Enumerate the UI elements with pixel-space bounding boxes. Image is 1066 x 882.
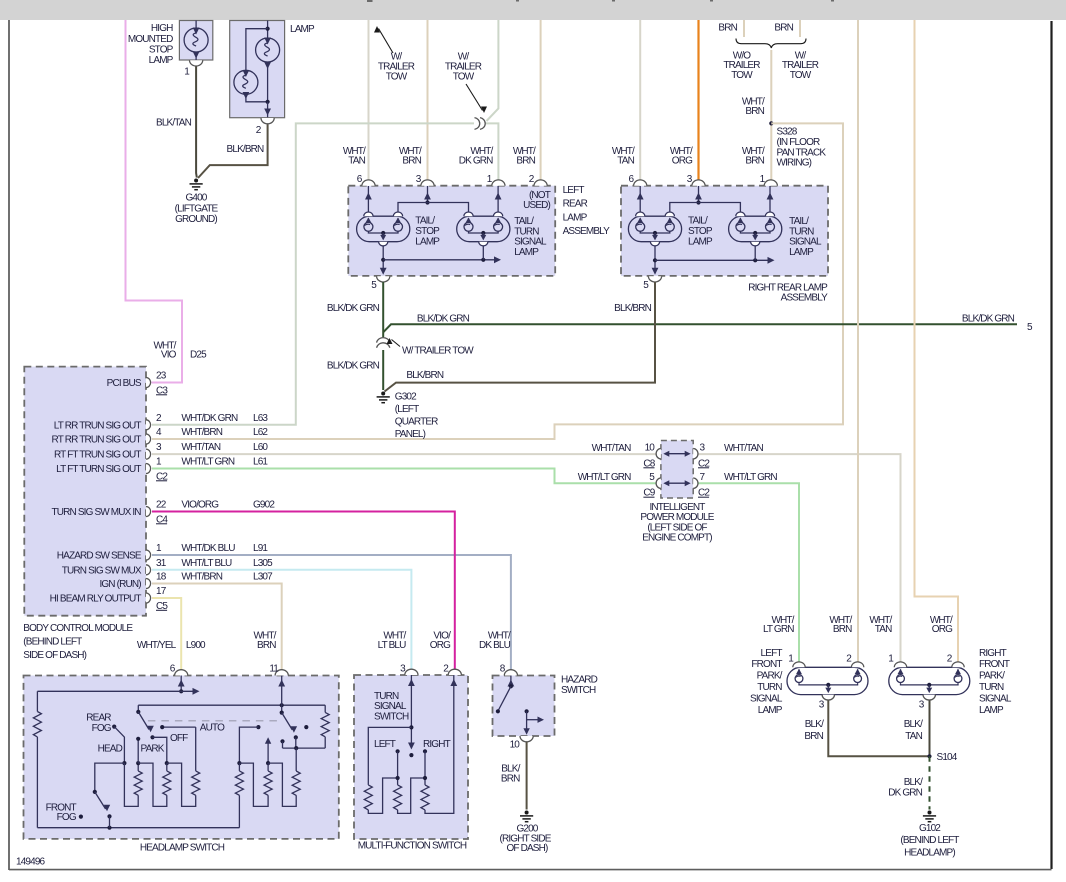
svg-text:C2: C2 xyxy=(156,471,168,482)
svg-text:HI BEAM RLY OUTPUT: HI BEAM RLY OUTPUT xyxy=(50,594,142,605)
svg-text:STOP: STOP xyxy=(149,44,174,55)
svg-text:PCI BUS: PCI BUS xyxy=(107,378,142,389)
svg-text:L305: L305 xyxy=(253,558,273,569)
label HAZARD SWITCH xyxy=(561,675,598,696)
svg-text:C2: C2 xyxy=(698,488,710,499)
svg-text:LAMP: LAMP xyxy=(149,55,174,66)
svg-text:G302: G302 xyxy=(395,392,417,403)
wire WHT/BRN L307 from BCM pin 18 to headlamp switch pin 11 xyxy=(152,584,282,676)
svg-text:SWITCH: SWITCH xyxy=(374,711,409,722)
svg-text:WHT/BRN: WHT/BRN xyxy=(181,427,222,438)
label WHT/TAN xyxy=(343,146,366,167)
svg-text:FRONT: FRONT xyxy=(979,659,1010,670)
wire BLK/BRN from hazard pin 10 to G200 xyxy=(526,742,528,810)
svg-text:23: 23 xyxy=(156,371,167,382)
headlamp switch box xyxy=(24,676,339,839)
pin 2 connector multi-function switch xyxy=(448,669,461,675)
svg-text:BLK/BRN: BLK/BRN xyxy=(227,144,264,155)
svg-text:LAMP: LAMP xyxy=(979,705,1004,716)
svg-text:G102: G102 xyxy=(919,823,941,834)
pin 3 feed wiring inside right rear lamp box xyxy=(670,186,741,212)
svg-text:WHT/LT BLU: WHT/LT BLU xyxy=(181,558,232,569)
svg-text:(LIFTGATE: (LIFTGATE xyxy=(175,203,219,214)
label WHT/BRN above left front lamp xyxy=(829,615,852,635)
license lamp box xyxy=(230,21,285,118)
svg-text:WHT/TAN: WHT/TAN xyxy=(724,443,763,454)
lamp A (upper) in license lamp box xyxy=(256,38,280,102)
svg-text:C5: C5 xyxy=(156,601,168,612)
svg-text:TAN: TAN xyxy=(905,731,922,742)
svg-text:BRN: BRN xyxy=(257,640,276,651)
BCM pin 1 HAZARD SW SENSE xyxy=(57,543,162,562)
svg-text:TAN: TAN xyxy=(875,624,892,635)
BCM pin 23 PCI BUS xyxy=(107,371,169,397)
wire WHT/LT BLU L305 from BCM pin 31 to multi-function switch pin 3 xyxy=(152,570,411,675)
wire BLK/BRN from license lamp pin 2 to G400 xyxy=(198,125,268,179)
hazard switch internal circuit xyxy=(496,676,544,735)
svg-text:S104: S104 xyxy=(937,752,958,763)
svg-text:WHT/YEL: WHT/YEL xyxy=(137,640,177,651)
svg-text:OFF: OFF xyxy=(170,733,188,744)
pin 10 connector hazard switch xyxy=(520,736,533,742)
clipped title text specks in gray bar xyxy=(367,0,834,2)
pin 8 connector hazard switch xyxy=(504,670,517,676)
label WHT/DK BLU L91 xyxy=(181,543,268,554)
labels WHT/LT GRN at IPM xyxy=(578,472,778,483)
svg-text:DK BLU: DK BLU xyxy=(479,640,511,651)
svg-text:VIO/ORG: VIO/ORG xyxy=(181,500,219,511)
svg-text:MULTI-FUNCTION SWITCH: MULTI-FUNCTION SWITCH xyxy=(358,841,467,852)
ground bus inside left rear lamp box xyxy=(380,246,501,275)
junction node in license lamp box xyxy=(266,100,270,104)
wire WHT/BRN from top to left front lamp pin 2 xyxy=(857,20,859,663)
svg-text:WHT/LT GRN: WHT/LT GRN xyxy=(181,457,234,468)
svg-text:BLK/DK GRN: BLK/DK GRN xyxy=(417,314,470,325)
svg-text:FOG: FOG xyxy=(92,723,112,734)
label WHT/YEL L900 xyxy=(137,640,206,651)
label WHT/TAN above right front lamp xyxy=(869,615,892,635)
svg-text:L62: L62 xyxy=(253,427,268,438)
svg-text:BLK/DK GRN: BLK/DK GRN xyxy=(327,360,380,371)
svg-text:LEFT: LEFT xyxy=(563,185,585,196)
svg-text:TOW: TOW xyxy=(790,70,812,81)
wire WHT/DK GRN L63 from BCM pin 2 to inline connector and left rear lamp pin 1 xyxy=(152,123,474,424)
svg-text:TURN SIG SW MUX: TURN SIG SW MUX xyxy=(62,565,142,576)
svg-text:SWITCH: SWITCH xyxy=(561,685,596,696)
svg-text:TAN: TAN xyxy=(617,156,634,167)
svg-text:TURN: TURN xyxy=(979,682,1004,693)
labels WHT/TAN at IPM xyxy=(592,443,764,454)
svg-text:10: 10 xyxy=(510,740,521,751)
svg-text:RIGHT: RIGHT xyxy=(423,739,451,750)
label VIO/ORG G902 xyxy=(181,500,275,511)
svg-text:LAMP: LAMP xyxy=(415,236,440,247)
tail/stop lamp (right rear) xyxy=(628,186,681,246)
svg-text:IGN (RUN): IGN (RUN) xyxy=(99,579,141,590)
svg-text:BLK/DK GRN: BLK/DK GRN xyxy=(327,303,380,314)
svg-text:TOW: TOW xyxy=(731,70,753,81)
BCM pin 4 RT RR TRUN SIG OUT xyxy=(52,427,162,446)
svg-text:HEADLAMP): HEADLAMP) xyxy=(904,847,955,858)
svg-text:G902: G902 xyxy=(253,500,275,511)
ground G102 xyxy=(928,811,932,815)
wire BLK/BRN from left front lamp pin 3 to S104 xyxy=(828,701,929,757)
turn signal switch internal circuit xyxy=(364,675,457,813)
BCM pin 1 LT FT TURN SIG OUT xyxy=(56,457,168,483)
wire WHT/DK BLU L91 from BCM pin 1 to hazard switch pin 8 xyxy=(152,555,511,675)
tail/turn signal lamp (right rear) xyxy=(729,186,782,246)
svg-text:BRN: BRN xyxy=(718,23,737,34)
wire WHT/BRN from brace to S328 and right rear lamp pin 1 xyxy=(770,50,772,182)
IPM pin 5 C9 connector xyxy=(656,478,661,488)
high mounted stop lamp box xyxy=(179,21,212,61)
svg-text:USED): USED) xyxy=(523,200,550,211)
BCM pin 31 TURN SIG SW MUX xyxy=(62,558,167,577)
label RIGHT FRONT PARK/TURN SIGNAL LAMP xyxy=(979,648,1012,716)
svg-text:L900: L900 xyxy=(186,640,206,651)
svg-text:SIGNAL: SIGNAL xyxy=(979,693,1012,704)
svg-text:LT RR TRUN SIG OUT: LT RR TRUN SIG OUT xyxy=(54,420,142,431)
svg-text:L63: L63 xyxy=(253,413,268,424)
wire WHT/BRN to left rear lamp pin 3 xyxy=(427,20,429,182)
label WHT/VIO D25 xyxy=(153,341,207,361)
hazard switch box xyxy=(493,676,555,737)
svg-text:AUTO: AUTO xyxy=(200,723,225,734)
license lamp internal parallel wiring xyxy=(246,21,270,71)
ground G400 xyxy=(194,179,198,183)
svg-text:PARK/: PARK/ xyxy=(757,671,783,682)
pin 1 connector of high mounted stop lamp xyxy=(190,60,203,66)
svg-text:QUARTER: QUARTER xyxy=(395,417,438,428)
svg-text:C8: C8 xyxy=(643,458,655,469)
svg-text:BLK/DK GRN: BLK/DK GRN xyxy=(962,314,1015,325)
label RIGHT REAR LAMP ASSEMBLY xyxy=(748,282,828,303)
label WHT/LT GRN above left front lamp xyxy=(763,615,795,635)
svg-text:11: 11 xyxy=(269,664,279,675)
top gray title bar xyxy=(0,0,1066,20)
svg-text:BRN: BRN xyxy=(833,624,852,635)
svg-text:LT FT TURN SIG OUT: LT FT TURN SIG OUT xyxy=(56,464,141,475)
svg-text:BODY CONTROL MODULE: BODY CONTROL MODULE xyxy=(23,623,133,634)
label WHT/BRN L62 xyxy=(181,427,268,438)
svg-text:BRN: BRN xyxy=(402,156,421,167)
svg-text:LAMP: LAMP xyxy=(758,705,783,716)
wire WHT/YEL L900 from BCM pin 17 to headlamp switch pin 6 xyxy=(152,598,181,675)
svg-text:ORG: ORG xyxy=(430,640,451,651)
svg-text:RIGHT: RIGHT xyxy=(979,648,1007,659)
splice S328 xyxy=(769,121,773,125)
wire BLK/DK GRN branch to right edge (off-page 5) xyxy=(383,324,1017,332)
inline connector on BLK/DK GRN (trailer tow) xyxy=(379,339,387,347)
label VIO/ORG xyxy=(430,630,451,651)
label INTELLIGENT POWER MODULE xyxy=(640,502,714,544)
svg-text:C2: C2 xyxy=(698,458,710,469)
svg-text:TURN SIG SW MUX IN: TURN SIG SW MUX IN xyxy=(52,507,142,518)
body control module box xyxy=(24,367,146,616)
label WHT/BRN xyxy=(513,146,536,167)
ground bus inside right rear lamp box xyxy=(652,246,775,275)
svg-text:(BENIND LEFT: (BENIND LEFT xyxy=(900,835,959,846)
svg-text:LEFT: LEFT xyxy=(761,648,783,659)
wire BLK/DK GRN from left rear lamp pin 5 to G302 xyxy=(382,282,384,337)
label WHT/LT BLU L305 xyxy=(181,558,273,569)
IPM pin 10 C8 connector xyxy=(656,449,661,459)
left page border xyxy=(8,20,10,870)
pin 6 connector left rear lamp xyxy=(362,180,375,186)
svg-text:HIGH: HIGH xyxy=(151,23,173,34)
wire WHT/ORG (orange) to right rear lamp pin 3 xyxy=(697,20,699,182)
label WHT/BRN xyxy=(399,146,422,167)
svg-text:MOUNTED: MOUNTED xyxy=(128,34,173,45)
IPM internal bus arrows xyxy=(663,451,690,487)
note W/ TRAILER TOW with arrow at G302 connector xyxy=(387,338,475,357)
wire BLK/DK GRN (dashed) from S104 to G102 xyxy=(929,756,931,809)
svg-text:31: 31 xyxy=(156,558,167,569)
svg-text:HEAD: HEAD xyxy=(98,744,123,755)
right front park/turn signal lamp xyxy=(889,662,970,700)
svg-text:D25: D25 xyxy=(190,350,207,361)
BCM pin 18 IGN (RUN) xyxy=(99,572,166,591)
svg-text:DK GRN: DK GRN xyxy=(459,156,493,167)
BCM pin 3 RT FT TRUN SIG OUT xyxy=(54,442,162,461)
tail/stop lamp (left rear) xyxy=(357,186,410,246)
wire WHT/BRN L62 from S328 to BCM pin 4 xyxy=(152,123,843,439)
BCM pin 17 HI BEAM RLY OUTPUT xyxy=(50,586,169,612)
svg-text:L61: L61 xyxy=(253,457,268,468)
svg-text:L60: L60 xyxy=(253,442,268,453)
svg-text:TAN: TAN xyxy=(348,156,365,167)
svg-text:LT BLU: LT BLU xyxy=(378,640,407,651)
wire BLK/BRN from right rear lamp pin 5 to G302 xyxy=(385,282,656,392)
wire WHT/LT GRN L61 from BCM pin 1 through IPM to left front lamp pin 1 xyxy=(152,469,658,484)
svg-text:GROUND): GROUND) xyxy=(175,214,217,225)
svg-text:WIRING): WIRING) xyxy=(777,158,812,169)
inline connector (trailer tow splice) xyxy=(475,118,480,130)
svg-text:WHT/DK GRN: WHT/DK GRN xyxy=(181,413,238,424)
label WHT/DK GRN L63 xyxy=(181,413,268,424)
pin 2 connector left rear lamp xyxy=(534,180,547,186)
note W/ TRAILER TOW with arrow (to inline connector) xyxy=(445,52,487,114)
svg-text:(BEHIND LEFT: (BEHIND LEFT xyxy=(23,637,82,648)
svg-text:BLK/TAN: BLK/TAN xyxy=(156,118,192,129)
label WHT/LT BLU xyxy=(378,630,407,651)
label HIGH MOUNTED STOP LAMP xyxy=(128,23,174,66)
svg-text:SIDE OF DASH): SIDE OF DASH) xyxy=(23,650,86,661)
svg-text:L91: L91 xyxy=(253,543,268,554)
svg-text:BRN: BRN xyxy=(745,106,764,117)
splice S104 xyxy=(927,754,931,758)
multi-function switch box xyxy=(354,675,468,839)
pin 6 connector right rear lamp xyxy=(634,180,647,186)
pin 6 connector headlamp switch xyxy=(175,670,188,676)
svg-text:REAR: REAR xyxy=(563,199,588,210)
svg-text:C3: C3 xyxy=(156,385,168,396)
svg-text:LAMP: LAMP xyxy=(290,24,315,35)
lamp: high mounted stop lamp xyxy=(184,21,208,61)
svg-text:WHT/LT GRN: WHT/LT GRN xyxy=(724,472,777,483)
pin 1 connector left rear lamp xyxy=(492,180,505,186)
IPM pin 3 C2 connector xyxy=(693,449,698,459)
svg-text:LT GRN: LT GRN xyxy=(763,624,794,635)
svg-text:WHT/TAN: WHT/TAN xyxy=(592,443,631,454)
svg-text:W/ TRAILER TOW: W/ TRAILER TOW xyxy=(402,346,474,357)
label BODY CONTROL MODULE xyxy=(23,623,133,661)
svg-text:WHT/TAN: WHT/TAN xyxy=(181,442,220,453)
wire BRN stub (w/ trailer tow) xyxy=(799,20,801,37)
svg-text:ASSEMBLY: ASSEMBLY xyxy=(781,292,829,303)
svg-text:RT FT TRUN SIG OUT: RT FT TRUN SIG OUT xyxy=(54,450,141,461)
svg-text:PANEL): PANEL) xyxy=(395,429,426,440)
label WHT/BRN L307 xyxy=(181,572,273,583)
label LEFT FRONT PARK/TURN SIGNAL LAMP xyxy=(750,648,783,716)
svg-text:LAMP: LAMP xyxy=(789,247,814,258)
pin 2 connector of license lamp box xyxy=(261,118,274,124)
BCM pin 22 TURN SIG SW MUX IN xyxy=(52,500,169,526)
wire WHT/VIO from top to BCM pin 23 xyxy=(126,20,183,383)
svg-text:10: 10 xyxy=(645,443,656,454)
svg-text:17: 17 xyxy=(156,586,167,597)
svg-text:BLK/: BLK/ xyxy=(805,719,824,730)
wire VIO/ORG G902 from BCM pin 22 to multi-function switch pin 2 xyxy=(152,512,455,676)
IPM pin 7 C2 connector xyxy=(693,478,698,488)
svg-text:G400: G400 xyxy=(185,192,207,203)
svg-text:C4: C4 xyxy=(156,514,168,525)
left front park/turn signal lamp xyxy=(787,662,868,700)
wire WHT/TAN to right rear lamp pin 6 xyxy=(639,20,641,182)
wire WHT/TAN to left rear lamp pin 6 xyxy=(368,20,370,182)
svg-text:ORG: ORG xyxy=(672,156,693,167)
svg-text:BRN: BRN xyxy=(516,156,535,167)
note W/ TRAILER TOW with arrow (left) xyxy=(374,26,415,83)
label WHT/ORG above right front lamp xyxy=(930,615,953,635)
svg-text:RT RR TRUN SIG OUT: RT RR TRUN SIG OUT xyxy=(52,435,142,446)
svg-text:WHT/DK BLU: WHT/DK BLU xyxy=(181,543,235,554)
svg-text:S328: S328 xyxy=(777,127,798,138)
pin 11 connector headlamp switch xyxy=(275,670,288,676)
svg-text:LEFT: LEFT xyxy=(374,739,396,750)
svg-text:BRN: BRN xyxy=(745,156,764,167)
svg-text:LAMP: LAMP xyxy=(688,236,713,247)
tail/turn signal lamp (left rear) xyxy=(457,186,510,246)
pin 1 connector right rear lamp xyxy=(764,180,777,186)
pin 5 connector right rear lamp xyxy=(648,276,661,282)
svg-text:22: 22 xyxy=(156,500,167,511)
svg-text:ORG: ORG xyxy=(932,624,953,635)
wire BLK/TAN from right front lamp pin 3 to S104 xyxy=(929,701,931,757)
headlamp switch internal circuit xyxy=(33,676,329,830)
svg-text:BRN: BRN xyxy=(804,731,823,742)
svg-text:BRN: BRN xyxy=(774,23,793,34)
svg-text:18: 18 xyxy=(156,572,167,583)
label WHT/TAN L60 xyxy=(181,442,268,453)
wire WHT/ORG from top to right front lamp pin 2 xyxy=(915,20,959,663)
wire BRN stub (w/o trailer tow) xyxy=(743,20,745,37)
svg-text:L307: L307 xyxy=(253,572,273,583)
svg-text:SIGNAL: SIGNAL xyxy=(750,693,783,704)
svg-text:WHT/LT GRN: WHT/LT GRN xyxy=(578,472,631,483)
svg-text:C9: C9 xyxy=(643,488,655,499)
right page border xyxy=(1050,21,1052,869)
svg-text:DK GRN: DK GRN xyxy=(888,787,922,798)
svg-text:ENGINE COMPT): ENGINE COMPT) xyxy=(642,533,712,544)
svg-text:HAZARD SW SENSE: HAZARD SW SENSE xyxy=(57,551,142,562)
pin 3 connector left rear lamp xyxy=(421,180,434,186)
svg-text:HEADLAMP SWITCH: HEADLAMP SWITCH xyxy=(140,842,225,853)
svg-text:LAMP: LAMP xyxy=(563,212,588,223)
pin 5 connector left rear lamp xyxy=(377,276,390,282)
brace joining BRN wires xyxy=(736,39,806,49)
label WHT/LT GRN L61 xyxy=(181,457,268,468)
pin 3 connector right rear lamp xyxy=(692,180,705,186)
label LEFT REAR LAMP ASSEMBLY xyxy=(563,185,611,237)
bottom page border xyxy=(9,869,1052,871)
left rear lamp assembly box xyxy=(348,186,555,276)
svg-text:VIO: VIO xyxy=(161,350,177,361)
svg-text:BLK/BRN: BLK/BRN xyxy=(614,303,651,314)
ground G302 xyxy=(381,392,385,396)
svg-text:ASSEMBLY: ASSEMBLY xyxy=(563,226,611,237)
label WHT/DK GRN xyxy=(459,146,494,167)
svg-text:TOW: TOW xyxy=(453,72,475,83)
label TURN SIGNAL SWITCH xyxy=(374,691,409,723)
svg-text:TURN: TURN xyxy=(757,682,782,693)
svg-text:FRONT: FRONT xyxy=(751,659,782,670)
label REAR FOG xyxy=(86,712,111,734)
svg-text:OF DASH): OF DASH) xyxy=(507,843,548,854)
wire BLK/TAN from pin 1 to G400 xyxy=(195,67,198,178)
label FRONT FOG xyxy=(46,803,77,824)
pin 3 feed wiring inside left rear lamp box xyxy=(398,186,469,212)
label WHT/DK BLU xyxy=(479,630,511,651)
intelligent power module box xyxy=(661,441,693,499)
svg-text:PARK/: PARK/ xyxy=(979,671,1005,682)
right rear lamp assembly box xyxy=(621,186,828,276)
svg-text:TOW: TOW xyxy=(386,72,408,83)
svg-text:(LEFT: (LEFT xyxy=(395,404,419,415)
svg-text:PARK: PARK xyxy=(141,744,165,755)
pin 3 connector multi-function switch xyxy=(405,669,418,675)
svg-text:LAMP: LAMP xyxy=(514,247,539,258)
svg-text:BRN: BRN xyxy=(501,773,520,784)
svg-text:WHT/BRN: WHT/BRN xyxy=(181,572,222,583)
svg-text:149496: 149496 xyxy=(16,857,46,868)
svg-text:FOG: FOG xyxy=(57,812,77,823)
BCM pin 2 LT RR TRUN SIG OUT xyxy=(54,413,162,432)
wire WHT/BRN to left rear lamp pin 2 (not used) xyxy=(540,20,542,182)
wire WHT/TAN L60 from BCM pin 3 through IPM to right front lamp pin 1 xyxy=(152,453,658,455)
label WHT/BRN above headlamp pin 11 xyxy=(253,631,276,652)
lamp B (lower) in license lamp box xyxy=(234,70,268,102)
svg-text:BLK/: BLK/ xyxy=(904,719,923,730)
svg-text:REAR: REAR xyxy=(86,712,111,723)
svg-text:BLK/BRN: BLK/BRN xyxy=(406,370,443,381)
ground G200 xyxy=(525,811,529,815)
